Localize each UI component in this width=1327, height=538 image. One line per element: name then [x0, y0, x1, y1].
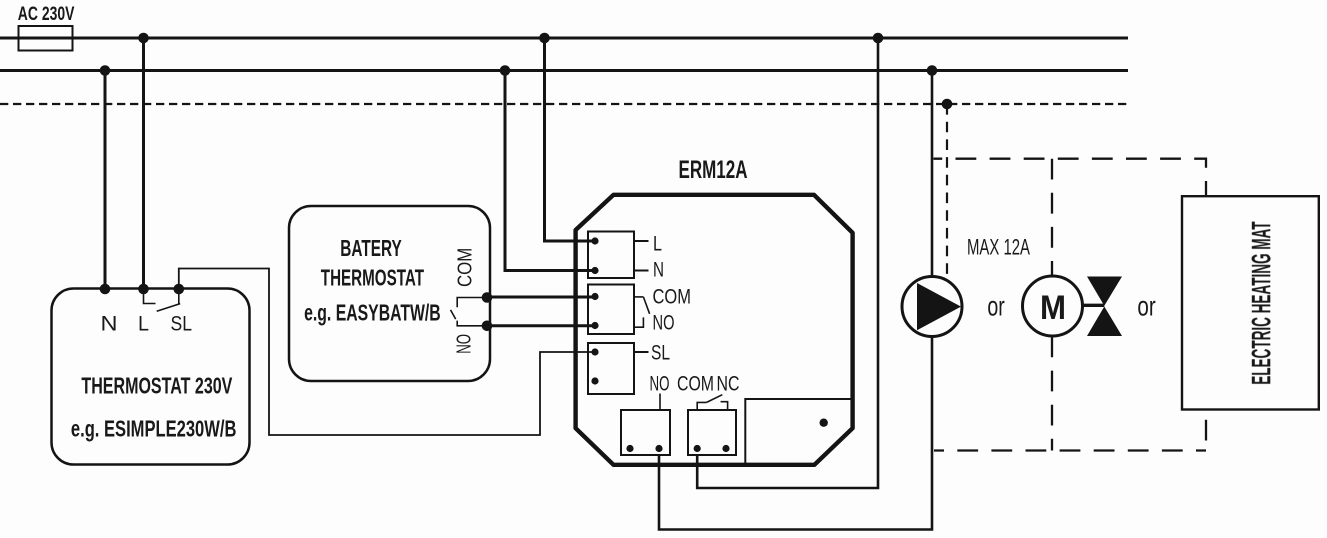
svg-text:e.g. ESIMPLE230W/B: e.g. ESIMPLE230W/B — [71, 415, 237, 441]
svg-text:L: L — [138, 313, 149, 336]
svg-text:N: N — [101, 313, 118, 336]
svg-text:THERMOSTAT 230V: THERMOSTAT 230V — [81, 372, 232, 398]
svg-text:COM: COM — [653, 285, 692, 308]
svg-text:NC: NC — [717, 373, 740, 396]
svg-text:NO: NO — [454, 334, 476, 354]
svg-text:SL: SL — [171, 313, 193, 336]
svg-text:COM: COM — [454, 248, 476, 287]
svg-text:or: or — [1137, 291, 1155, 322]
svg-text:THERMOSTAT: THERMOSTAT — [321, 264, 424, 290]
svg-text:COM: COM — [677, 373, 714, 396]
svg-text:NO: NO — [650, 373, 670, 396]
svg-text:NO: NO — [653, 312, 675, 335]
svg-text:ELECTRIC HEATING MAT: ELECTRIC HEATING MAT — [1246, 221, 1276, 385]
svg-text:SL: SL — [651, 342, 670, 365]
svg-text:or: or — [987, 291, 1004, 322]
svg-text:e.g. EASYBATW/B: e.g. EASYBATW/B — [304, 300, 441, 326]
svg-text:AC 230V: AC 230V — [18, 4, 75, 25]
svg-text:MAX 12A: MAX 12A — [967, 235, 1030, 260]
svg-text:BATERY: BATERY — [340, 235, 401, 261]
svg-text:N: N — [653, 259, 664, 282]
svg-text:M: M — [1040, 289, 1066, 327]
svg-text:ERM12A: ERM12A — [679, 156, 748, 184]
svg-text:L: L — [653, 233, 662, 256]
